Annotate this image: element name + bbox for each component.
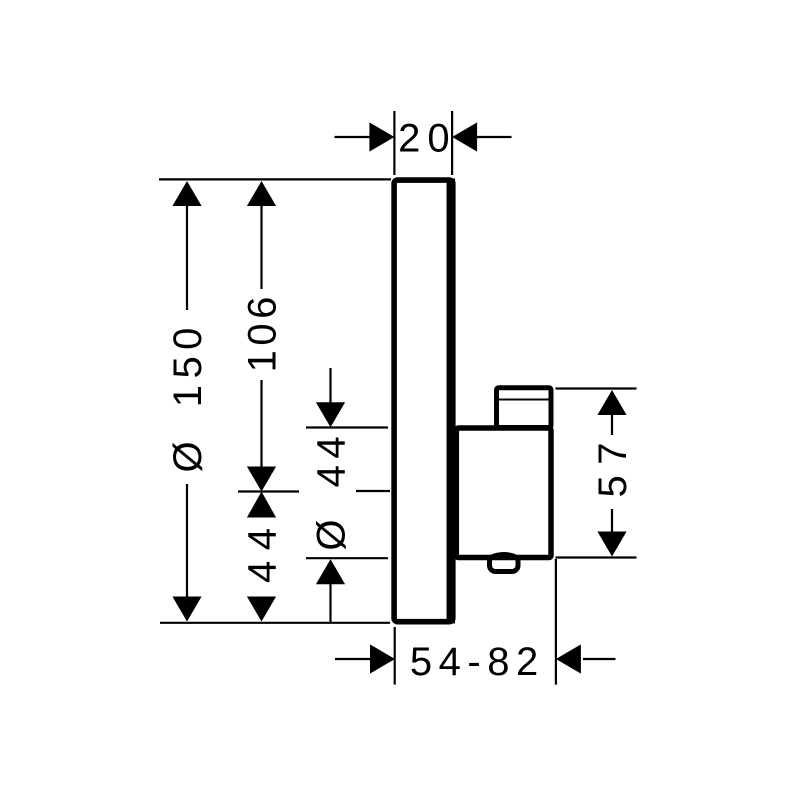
svg-text:44: 44 [240,518,284,584]
svg-text:Ø 44: Ø 44 [309,430,353,551]
svg-text:20: 20 [398,117,457,161]
svg-text:57: 57 [591,432,635,498]
svg-text:54-82: 54-82 [410,640,545,684]
svg-text:106: 106 [240,292,284,372]
svg-text:Ø 150: Ø 150 [166,321,210,472]
